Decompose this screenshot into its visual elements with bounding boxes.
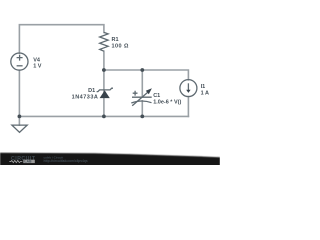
wire middle rail xyxy=(104,70,188,80)
watermark logo zigzag xyxy=(9,160,22,162)
svg-text:I1: I1 xyxy=(201,84,206,90)
capacitor C1 xyxy=(131,91,151,106)
node dot C1 bottom rail xyxy=(140,115,144,119)
svg-text:R1: R1 xyxy=(112,37,119,43)
wire I1 bottom xyxy=(187,97,189,117)
svg-text:http://circuitlab.com/c8pv4qs: http://circuitlab.com/c8pv4qs xyxy=(44,159,88,163)
watermark logo LAB xyxy=(23,160,35,163)
svg-text:100 Ω: 100 Ω xyxy=(112,43,130,49)
current source I1 xyxy=(180,80,197,97)
svg-text:LAB: LAB xyxy=(24,160,32,164)
wire bottom rail xyxy=(19,115,188,117)
wire ground stub xyxy=(18,116,20,125)
svg-text:1.0e-6 * V(): 1.0e-6 * V() xyxy=(153,100,181,106)
ground xyxy=(12,125,27,132)
node dot D1 bottom rail xyxy=(102,115,106,119)
wire V4 bottom to ground node xyxy=(18,70,20,116)
node dot V4/ground junction xyxy=(18,115,22,119)
svg-text:D1: D1 xyxy=(88,88,95,94)
svg-text:1N4733A: 1N4733A xyxy=(72,94,99,100)
wire R1 bottom to middle rail xyxy=(103,51,105,70)
svg-text:C1: C1 xyxy=(153,93,160,99)
node dot R1/D1 middle rail xyxy=(102,68,106,72)
zener diode D1 xyxy=(97,88,113,98)
voltage source V4 xyxy=(11,53,28,70)
wire D1 column xyxy=(103,70,105,116)
watermark banner xyxy=(0,153,220,166)
wire C1 bottom xyxy=(141,101,143,117)
wire top rail xyxy=(19,25,104,54)
resistor R1 xyxy=(100,32,108,51)
wire C1 top xyxy=(141,70,143,97)
node dot C1 middle rail xyxy=(140,68,144,72)
svg-text:1 V: 1 V xyxy=(33,64,42,70)
svg-text:1 A: 1 A xyxy=(201,90,209,96)
